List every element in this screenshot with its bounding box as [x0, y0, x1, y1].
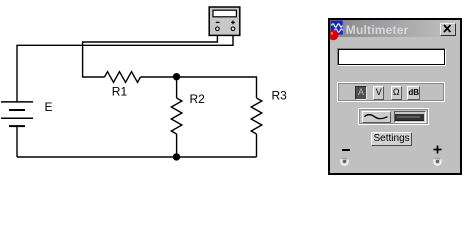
plus terminal label — [433, 145, 442, 154]
svg-text:R3: R3 — [272, 89, 288, 103]
wire: R1 right to node A — [141, 76, 177, 78]
signal mode panel — [358, 108, 430, 125]
svg-text:R2: R2 — [190, 92, 206, 106]
title bar — [330, 20, 460, 37]
svg-text:E: E — [45, 100, 53, 114]
resistor R1 — [105, 72, 141, 83]
multimeter XMM1 plus sign — [231, 21, 235, 25]
minus terminal label — [342, 149, 350, 151]
battery E — [1, 102, 33, 126]
button V — [373, 86, 384, 99]
svg-text:R1: R1 — [112, 85, 128, 99]
multimeter XMM1 minus sign — [216, 21, 220, 23]
resistor R2 — [171, 98, 182, 134]
node B junction dot — [173, 153, 180, 160]
circuit schematic svg — [0, 0, 330, 194]
button ohm — [391, 86, 402, 99]
mode buttons panel — [337, 82, 446, 102]
wire: multimeter plus terminal to battery positive — [17, 31, 233, 102]
node A junction dot — [173, 73, 180, 80]
multimeter instrument window — [328, 18, 462, 175]
AC button (sine wave) — [362, 111, 392, 123]
button dB — [407, 86, 420, 99]
minus terminal socket — [340, 157, 349, 166]
DC button (flat bar, selected) — [394, 111, 426, 123]
wire: multimeter minus terminal to R1 left — [83, 31, 218, 77]
resistor R3 — [251, 98, 262, 134]
plus terminal socket — [433, 157, 442, 166]
wire: R2 bottom to node B — [176, 134, 178, 157]
close button — [440, 23, 456, 36]
multimeter XMM1 minus terminal — [216, 27, 220, 31]
multimeter XMM1 icon body — [209, 7, 240, 35]
multimeter XMM1 display window — [213, 10, 236, 17]
wire: R3 bottom lead — [256, 134, 258, 157]
measurement display — [337, 48, 446, 67]
Settings button — [371, 132, 413, 146]
wire: battery negative to bottom rail — [16, 126, 18, 157]
button A (ammeter, selected) — [355, 86, 366, 99]
wire: bottom rail — [17, 156, 257, 158]
wire: node A to R2 top — [176, 77, 178, 98]
multimeter XMM1 plus terminal — [231, 27, 235, 31]
title text — [346, 23, 409, 37]
wire: node A to R3 top — [177, 77, 257, 98]
window icon (multimeter, blue square with red ball) — [330, 20, 348, 42]
